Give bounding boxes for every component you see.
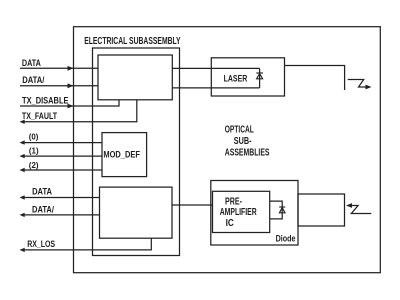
arrowhead DATA/ out bbox=[20, 213, 25, 217]
wire RX_LOS output bbox=[24, 238, 151, 250]
receiver IC box U3 bbox=[100, 187, 173, 238]
fiber stub RX squiggle bbox=[351, 206, 371, 214]
outer module box bbox=[74, 27, 381, 273]
arrowhead RX fiber bbox=[346, 203, 352, 208]
svg-text:LASER: LASER bbox=[224, 73, 248, 83]
svg-text:DATA/: DATA/ bbox=[22, 75, 45, 85]
arrowhead TX_FAULT out bbox=[20, 120, 25, 124]
wire DATA input bbox=[20, 67, 98, 69]
svg-text:TX_FAULT: TX_FAULT bbox=[22, 111, 58, 121]
wire laser optical output bbox=[285, 66, 345, 91]
preamplifier IC box U4 bbox=[213, 191, 270, 232]
photodiode loop bbox=[270, 201, 283, 219]
laser diode cathode link bbox=[259, 68, 261, 88]
svg-text:TX_DISABLE: TX_DISABLE bbox=[22, 96, 69, 106]
svg-text:(1): (1) bbox=[29, 146, 39, 156]
wire TX rail top to laser diode bbox=[172, 67, 259, 69]
wire DATA/ input bbox=[20, 85, 98, 87]
wire RX input to preamplifier bbox=[172, 204, 213, 206]
svg-text:DATA: DATA bbox=[22, 58, 41, 68]
preamplifier ROSA box bbox=[211, 181, 298, 246]
arrowhead RX_LOS out bbox=[20, 248, 25, 252]
svg-text:ASSEMBLIES: ASSEMBLIES bbox=[225, 147, 270, 158]
arrowhead MOD_DEF(1) bbox=[20, 154, 25, 158]
laser TOSA box bbox=[211, 58, 284, 96]
wire DATA/ output bbox=[24, 214, 100, 216]
wire TX_DISABLE input bbox=[20, 100, 119, 106]
svg-text:(2): (2) bbox=[29, 160, 39, 170]
svg-text:(0): (0) bbox=[29, 132, 39, 142]
arrowhead DATA/ in bbox=[68, 83, 74, 88]
arrowhead TX_DISABLE in bbox=[68, 104, 74, 109]
transmitter IC box U1 bbox=[98, 55, 172, 100]
wire TX rail bottom to laser diode bbox=[172, 87, 259, 89]
svg-text:OPTICAL: OPTICAL bbox=[225, 124, 254, 135]
svg-text:IC: IC bbox=[226, 218, 234, 229]
photodiode D2 bbox=[279, 207, 285, 213]
svg-text:MOD_DEF: MOD_DEF bbox=[103, 149, 140, 159]
svg-text:SUB-: SUB- bbox=[234, 136, 252, 147]
laser diode D1 bbox=[256, 73, 263, 79]
wire MOD_DEF(0) bbox=[24, 142, 102, 144]
svg-text:PRE-: PRE- bbox=[225, 197, 242, 208]
svg-text:AMPLIFIER: AMPLIFIER bbox=[220, 207, 258, 218]
arrowhead DATA in bbox=[68, 66, 74, 71]
wire TX_FAULT output bbox=[24, 100, 137, 122]
MOD_DEF box U2 bbox=[102, 133, 147, 177]
arrowhead DATA out bbox=[20, 195, 25, 199]
svg-text:Diode: Diode bbox=[276, 234, 296, 244]
arrowhead TX fiber bbox=[366, 85, 372, 90]
wire MOD_DEF(2) bbox=[24, 169, 102, 171]
svg-text:RX_LOS: RX_LOS bbox=[27, 239, 55, 249]
svg-text:DATA: DATA bbox=[32, 187, 52, 197]
fiber stub TX squiggle bbox=[348, 80, 366, 88]
arrowhead MOD_DEF(2) bbox=[20, 168, 25, 172]
electrical subassembly box bbox=[93, 48, 180, 256]
wire MOD_DEF(1) bbox=[24, 155, 102, 157]
svg-text:DATA/: DATA/ bbox=[32, 205, 54, 215]
svg-text:ELECTRICAL SUBASSEMBLY: ELECTRICAL SUBASSEMBLY bbox=[84, 36, 181, 47]
wire DATA output bbox=[24, 197, 100, 199]
fiber receptacle box bbox=[298, 194, 345, 226]
arrowhead MOD_DEF(0) bbox=[20, 140, 25, 144]
